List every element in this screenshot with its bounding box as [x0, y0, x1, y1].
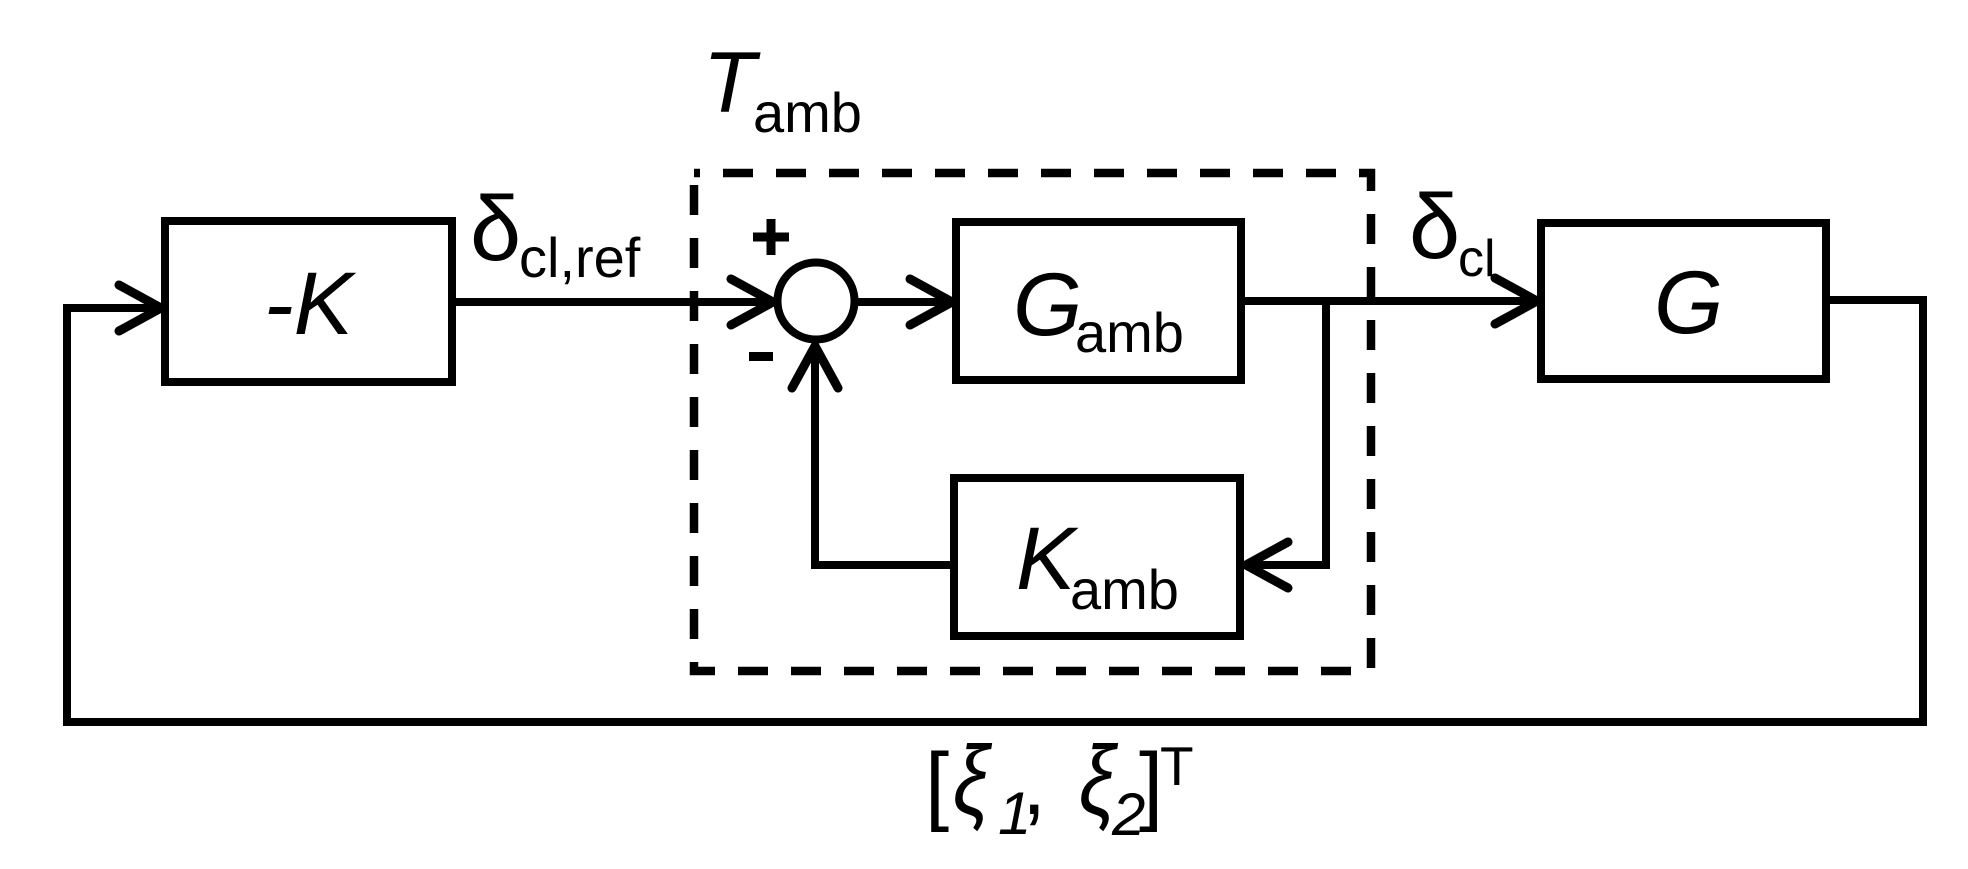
dashed box T_amb	[694, 173, 1371, 671]
svg-text:[: [	[925, 736, 949, 833]
svg-text:G: G	[1654, 252, 1723, 352]
wire feedback loop from G output right, down, along bottom, up left into -K	[67, 300, 1923, 722]
summing junction circle	[778, 263, 855, 340]
block G	[1541, 223, 1826, 379]
block G_amb	[956, 222, 1241, 380]
wire -K output to summing junction	[456, 298, 768, 306]
svg-text:,: ,	[1022, 736, 1046, 833]
arrowhead into K_amb (pointing left)	[1246, 542, 1288, 588]
block -K	[165, 221, 452, 382]
svg-text:δ: δ	[1409, 176, 1460, 278]
svg-text:cl,ref: cl,ref	[519, 226, 641, 289]
block K_amb	[954, 478, 1240, 636]
arrowhead into G	[1495, 278, 1537, 324]
svg-text:amb: amb	[1075, 301, 1184, 364]
wire K_amb output left and up into summing junction	[815, 350, 950, 565]
plus sign at summing junction	[753, 219, 789, 255]
wire junction down into K_amb input	[1252, 301, 1326, 565]
arrowhead into G_amb	[910, 279, 952, 325]
svg-text:ξ: ξ	[953, 727, 993, 836]
arrowhead into -K input	[119, 285, 161, 331]
svg-text:-K: -K	[264, 253, 357, 353]
svg-text:amb: amb	[1070, 558, 1179, 621]
minus sign at summing junction	[749, 352, 773, 361]
svg-text:T: T	[1160, 735, 1194, 797]
svg-text:δ: δ	[470, 178, 521, 280]
svg-text:G: G	[1013, 254, 1082, 354]
wire summing junction to G_amb	[858, 298, 946, 306]
svg-text:cl: cl	[1458, 230, 1496, 288]
wire G_amb output to G with junction branch	[1245, 297, 1531, 305]
svg-text:amb: amb	[753, 81, 862, 144]
arrowhead into summing junction bottom (pointing up)	[792, 346, 838, 388]
arrowhead into summing junction	[731, 279, 773, 325]
